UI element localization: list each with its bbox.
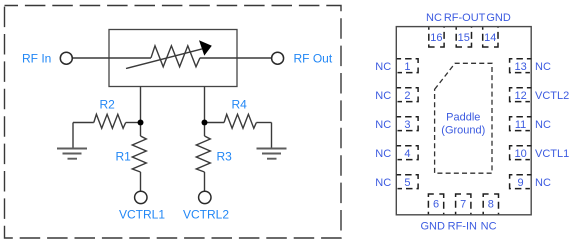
svg-text:NC: NC: [535, 61, 551, 73]
svg-text:R2: R2: [100, 98, 116, 112]
svg-text:NC: NC: [375, 177, 391, 189]
svg-text:NC: NC: [375, 119, 391, 131]
svg-text:Paddle: Paddle: [446, 112, 480, 124]
svg-text:2: 2: [404, 90, 410, 102]
svg-text:NC: NC: [375, 148, 391, 160]
svg-text:R3: R3: [217, 150, 233, 164]
svg-text:7: 7: [460, 199, 466, 211]
svg-text:RF Out: RF Out: [294, 52, 333, 66]
svg-text:NC: NC: [375, 61, 391, 73]
svg-text:11: 11: [515, 119, 526, 131]
svg-text:RF-OUT: RF-OUT: [444, 12, 486, 24]
svg-text:VCTL2: VCTL2: [535, 90, 569, 102]
svg-text:13: 13: [514, 61, 526, 73]
svg-text:5: 5: [404, 177, 410, 189]
svg-text:RF In: RF In: [22, 52, 51, 66]
svg-text:4: 4: [404, 148, 410, 160]
svg-text:NC: NC: [426, 12, 442, 24]
svg-text:R4: R4: [232, 98, 248, 112]
svg-text:1: 1: [404, 61, 410, 73]
svg-text:(Ground): (Ground): [441, 125, 485, 137]
svg-text:R1: R1: [116, 150, 132, 164]
svg-text:8: 8: [488, 199, 494, 211]
svg-text:VCTRL2: VCTRL2: [183, 208, 229, 222]
svg-text:NC: NC: [535, 119, 551, 131]
svg-text:NC: NC: [375, 90, 391, 102]
svg-text:RF-IN: RF-IN: [448, 221, 477, 233]
svg-text:GND: GND: [486, 12, 511, 24]
svg-text:NC: NC: [535, 177, 551, 189]
svg-text:12: 12: [514, 90, 526, 102]
svg-text:15: 15: [458, 32, 470, 44]
svg-text:VCTRL1: VCTRL1: [119, 208, 165, 222]
svg-text:14: 14: [484, 32, 496, 44]
svg-text:6: 6: [433, 199, 439, 211]
svg-text:VCTL1: VCTL1: [535, 148, 569, 160]
svg-text:NC: NC: [481, 221, 497, 233]
svg-text:16: 16: [430, 32, 442, 44]
svg-text:9: 9: [518, 177, 524, 189]
svg-text:10: 10: [514, 148, 526, 160]
svg-text:GND: GND: [420, 221, 445, 233]
svg-text:3: 3: [404, 119, 410, 131]
